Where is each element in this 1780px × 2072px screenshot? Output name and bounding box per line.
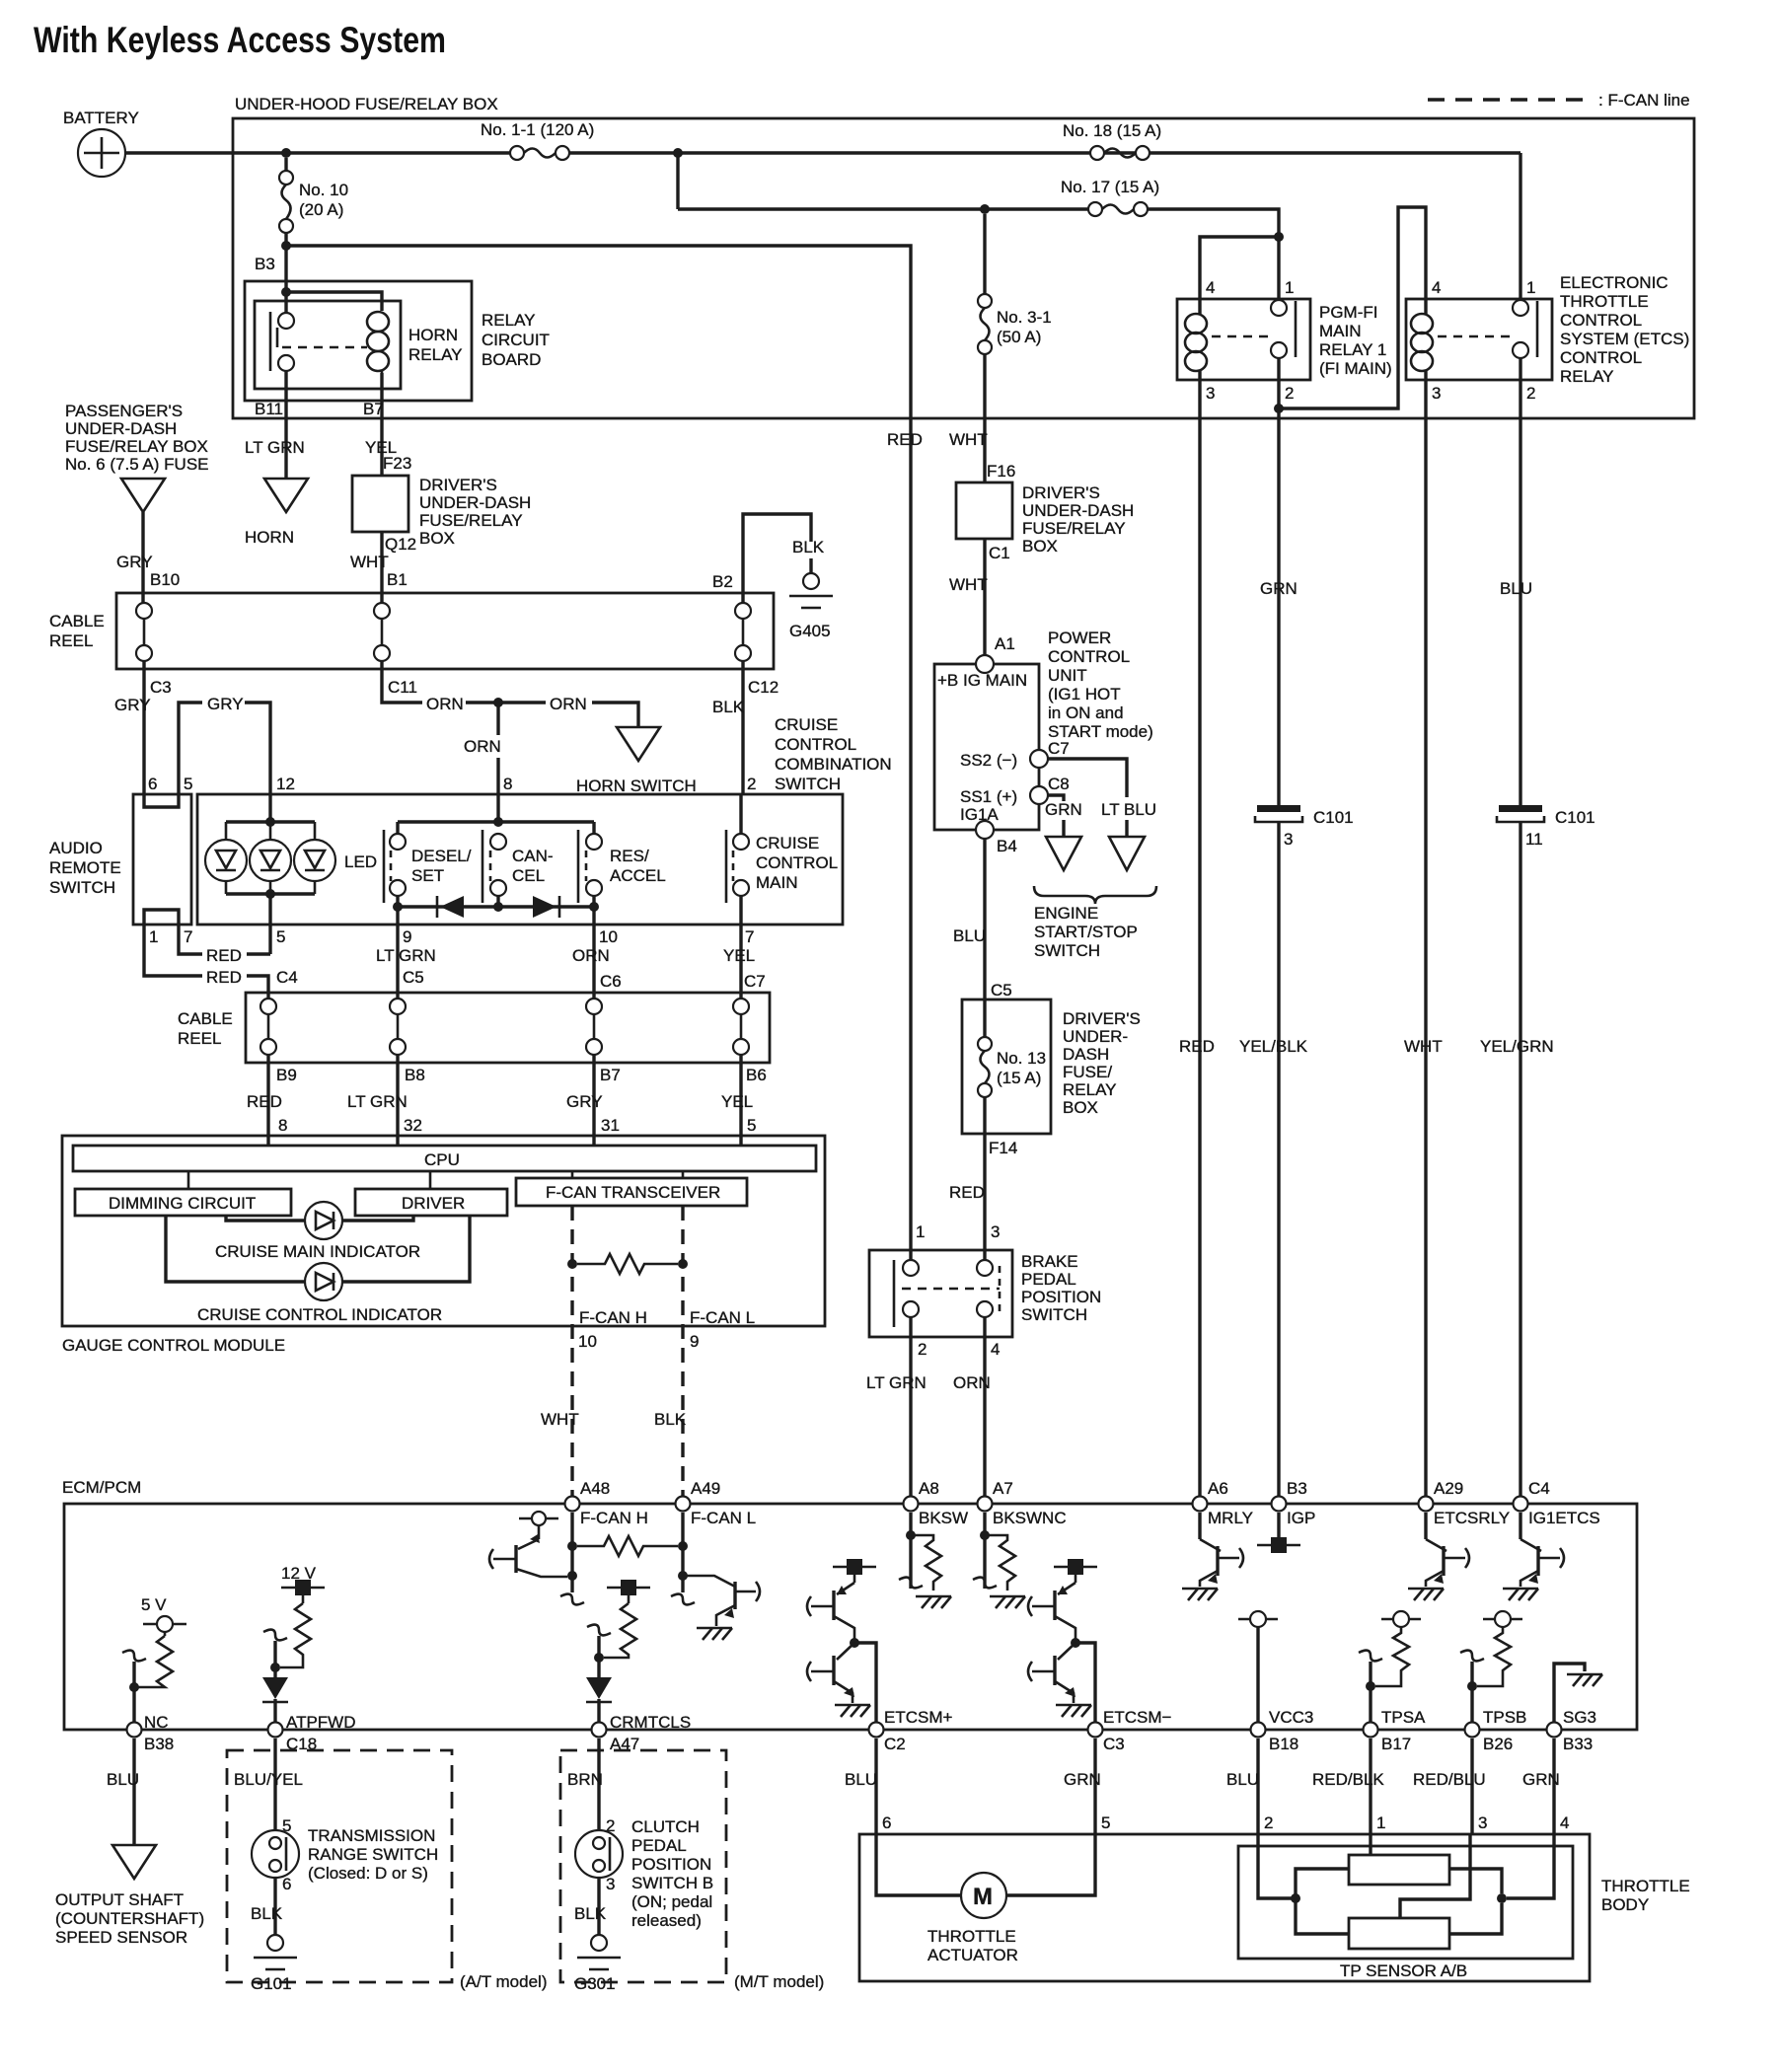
svg-text:ACTUATOR: ACTUATOR [927, 1946, 1018, 1964]
svg-text:BLU: BLU [953, 926, 986, 945]
ECM F-CAN terminating resistor [577, 1536, 678, 1556]
wire audio pin1 down [144, 925, 202, 976]
wire SG3 pin4 to TP box [1552, 1739, 1555, 1834]
wire TRS to ground G101 [273, 1878, 276, 1935]
svg-text:YEL: YEL [723, 946, 755, 965]
clutch pedal position switch [575, 1830, 623, 1878]
svg-text:RELAY: RELAY [1560, 367, 1614, 386]
cruise control indicator LED [305, 1263, 342, 1300]
throttle actuator motor [961, 1873, 1006, 1918]
connector C4 circle [1514, 1497, 1528, 1512]
wire CPU to F-CAN transceiver left [571, 1171, 574, 1178]
ground BKSWNC [990, 1596, 1025, 1608]
svg-text:ORN: ORN [572, 946, 610, 965]
ground Q-A49 [697, 1628, 732, 1640]
svg-text:CABLE: CABLE [178, 1009, 233, 1028]
wire C2 to throttle actuator [874, 1739, 877, 1834]
node horn relay feed junction [281, 287, 291, 297]
horn relay contact tick [276, 328, 279, 347]
wire C7 to LT BLU triangle [1048, 759, 1127, 797]
svg-text:LT GRN: LT GRN [347, 1092, 408, 1111]
svg-text:TP SENSOR A/B: TP SENSOR A/B [1340, 1961, 1467, 1980]
wire F16 to power control unit A1 [983, 539, 986, 656]
ground ETCSRLY [1408, 1589, 1444, 1600]
LED 2 [250, 822, 291, 894]
svg-text:OUTPUT SHAFT: OUTPUT SHAFT [55, 1890, 184, 1909]
svg-text:REEL: REEL [178, 1029, 221, 1048]
ECM/PCM box [64, 1504, 1637, 1730]
svg-text:BOX: BOX [1022, 537, 1058, 555]
svg-text:WHT: WHT [949, 575, 988, 594]
wire res junction to pin 10 [592, 907, 595, 998]
svg-text:3: 3 [991, 1222, 1000, 1241]
fuse No.1-1 (120 A) [510, 146, 569, 160]
svg-text:C101: C101 [1313, 808, 1354, 827]
wire horn relay pin B11 down [284, 371, 287, 479]
engine start/stop brace [1034, 886, 1156, 904]
svg-text:(IG1 HOT: (IG1 HOT [1048, 685, 1121, 703]
svg-text:BLK: BLK [251, 1904, 283, 1923]
svg-text:HORN: HORN [245, 528, 294, 547]
wire TP pin1 into sensor A [1369, 1834, 1372, 1855]
connector C5/B8 pins [390, 999, 406, 1055]
svg-text:C2: C2 [884, 1735, 906, 1753]
svg-text:F-CAN H: F-CAN H [579, 1308, 647, 1327]
svg-text:G101: G101 [251, 1974, 292, 1993]
svg-text:C11: C11 [388, 678, 417, 697]
svg-text:C12: C12 [748, 678, 779, 697]
svg-text:ETCSM+: ETCSM+ [884, 1708, 953, 1727]
svg-text:No. 1-1 (120 A): No. 1-1 (120 A) [481, 120, 594, 139]
connector LT BLU triangle [1109, 837, 1145, 870]
wire C11 to ORN row [382, 661, 422, 703]
svg-text:CRUISE: CRUISE [775, 715, 838, 734]
resistor TPSB [1477, 1627, 1511, 1686]
svg-text:THROTTLE: THROTTLE [1601, 1877, 1690, 1895]
svg-text:BOX: BOX [1063, 1098, 1098, 1117]
connector A1 circle [976, 655, 994, 673]
wire F14 to brake pedal switch pin 3 [983, 1134, 986, 1260]
svg-text:8: 8 [503, 775, 512, 793]
svg-text:BLU: BLU [1500, 579, 1532, 598]
svg-text:GRN: GRN [1045, 800, 1082, 819]
squiggle base upper ETCSM- [1028, 1596, 1032, 1616]
TP sensor A resistor rect [1349, 1855, 1449, 1885]
svg-text:F23: F23 [383, 454, 411, 473]
wire junction to horn relay coil [286, 292, 382, 311]
wire TP pin2 into sensor bus [1258, 1834, 1296, 1898]
wire TPSB pin3 to TP box [1470, 1739, 1473, 1834]
wire cruise pin12 to LED bus [268, 794, 271, 822]
fuse No.18 (15 A) [1090, 146, 1150, 160]
wire B3 internal [1277, 1513, 1280, 1537]
svg-text:BOARD: BOARD [482, 350, 541, 369]
connector A49 circle [676, 1497, 691, 1512]
svg-text:C5: C5 [991, 981, 1012, 999]
svg-text:(A/T model): (A/T model) [460, 1972, 548, 1991]
svg-text:B1: B1 [387, 570, 408, 589]
svg-text:RED: RED [247, 1092, 282, 1111]
connector A29 circle [1419, 1497, 1434, 1512]
svg-text:BLU/YEL: BLU/YEL [234, 1770, 303, 1789]
wire A6 internal [1198, 1513, 1201, 1539]
wire B7 down to gauge pin 31 [592, 1055, 595, 1146]
svg-text:B4: B4 [997, 837, 1017, 855]
connector C7/B6 pins [733, 999, 749, 1055]
gauge F-CAN terminating resistor [577, 1254, 678, 1274]
PGM-FI relay contact pin2 circle [1271, 342, 1287, 358]
svg-text:1: 1 [149, 927, 158, 946]
diode ATPFWD [262, 1677, 288, 1730]
node TP left junction [1291, 1893, 1300, 1903]
svg-text:B10: B10 [150, 570, 180, 589]
svg-text:DRIVER'S: DRIVER'S [1022, 483, 1100, 502]
transistor Q-ETCSM+ lower [811, 1643, 854, 1703]
svg-text:F-CAN TRANSCEIVER: F-CAN TRANSCEIVER [546, 1183, 720, 1202]
svg-text:6: 6 [148, 775, 157, 793]
svg-text:3: 3 [1432, 384, 1441, 403]
relay circuit board box [245, 281, 472, 401]
ground SG3 [1567, 1674, 1602, 1686]
svg-text:A29: A29 [1434, 1479, 1463, 1498]
svg-text:5 V: 5 V [141, 1595, 167, 1614]
wire GRY jumper right stub [245, 703, 270, 794]
svg-text:ENGINE: ENGINE [1034, 904, 1098, 923]
connector B1/C11 pin circles [374, 603, 390, 661]
gauge control module box [62, 1136, 825, 1326]
svg-text:in ON and: in ON and [1048, 703, 1124, 722]
svg-text:F-CAN H: F-CAN H [580, 1509, 648, 1527]
wire dimming to cruise control indicator [166, 1216, 306, 1282]
node WHT branch junction on second rail [980, 204, 990, 214]
svg-text:GRY: GRY [116, 553, 153, 571]
ground G405 symbol [789, 573, 833, 608]
svg-text:AUDIO: AUDIO [49, 839, 103, 857]
svg-text:SG3: SG3 [1563, 1708, 1596, 1727]
svg-text:BLK: BLK [574, 1904, 607, 1923]
connector horn switch triangle [617, 727, 660, 761]
fuse No.17 (15 A) [1088, 202, 1148, 216]
connector HORN triangle [264, 479, 308, 512]
svg-text:5: 5 [276, 927, 285, 946]
node top bus junction [493, 817, 503, 827]
svg-text:YEL/GRN: YEL/GRN [1480, 1037, 1554, 1056]
squiggle base Q-A48 [489, 1549, 493, 1569]
cable reel box 1 [116, 593, 774, 669]
svg-text:M: M [973, 1884, 993, 1910]
svg-text:5: 5 [747, 1116, 756, 1135]
svg-text:BLU: BLU [107, 1770, 139, 1789]
svg-text:RELAY 1: RELAY 1 [1319, 340, 1386, 359]
F-CAN transceiver box [516, 1178, 747, 1206]
wire passenger triangle to cable reel B10 [141, 512, 144, 603]
svg-text:GRN: GRN [1522, 1770, 1560, 1789]
svg-text:C5: C5 [403, 968, 424, 987]
wire B9 down to gauge pin 8 [266, 1055, 269, 1146]
svg-text:No. 3-1: No. 3-1 [997, 308, 1052, 327]
squiggle base lower ETCSM+ [807, 1662, 811, 1681]
connector output shaft triangle [112, 1845, 156, 1879]
wire TP pin4 to right junction [1507, 1834, 1554, 1898]
svg-text:1: 1 [1526, 278, 1535, 297]
svg-text:GRN: GRN [1064, 1770, 1101, 1789]
svg-text:GRN: GRN [1260, 579, 1298, 598]
horn relay contact pin circles [278, 313, 294, 329]
diode D2 pointing right [533, 896, 559, 918]
wire diode bus junction to pin 9 [396, 907, 399, 998]
svg-text:MAIN: MAIN [756, 873, 798, 892]
svg-text:COMBINATION: COMBINATION [775, 755, 892, 774]
svg-text:(20 A): (20 A) [299, 200, 343, 219]
svg-text:RED: RED [887, 430, 923, 449]
svg-text:GRY: GRY [114, 696, 151, 714]
wire inside No.13 box bottom [983, 1097, 986, 1134]
LED 3 [294, 822, 335, 894]
svg-text:C7: C7 [1048, 739, 1070, 758]
svg-text:7: 7 [745, 927, 754, 946]
svg-text:CEL: CEL [512, 866, 545, 885]
node A48 lower junction [567, 1571, 577, 1581]
svg-text:B2: B2 [712, 572, 733, 591]
svg-text:DRIVER: DRIVER [402, 1194, 465, 1213]
resistor BKSW to ground [911, 1535, 941, 1591]
transistor Q-ETCSM- lower [1032, 1643, 1075, 1703]
connector B38 circle [127, 1723, 142, 1738]
node NC junction [129, 1682, 139, 1692]
ground ETCSM+ [835, 1705, 870, 1717]
svg-text:C4: C4 [276, 968, 298, 987]
node ORN junction [493, 698, 503, 707]
under-hood fuse/relay box [233, 118, 1694, 418]
svg-text:No. 18 (15 A): No. 18 (15 A) [1063, 121, 1161, 140]
svg-text:IG1ETCS: IG1ETCS [1528, 1509, 1600, 1527]
wire ETCSM+ output to C2 [854, 1643, 876, 1730]
svg-text:RES/: RES/ [610, 847, 649, 865]
throttle body box [859, 1834, 1590, 1981]
wire BLK stub to ground [809, 558, 812, 573]
wire branch down to second rail [676, 153, 679, 209]
svg-text:POSITION: POSITION [631, 1855, 711, 1874]
M/T model dashed box [560, 1750, 726, 1982]
wire dimming to cruise main indicator [226, 1216, 306, 1221]
svg-text:10: 10 [599, 927, 618, 946]
svg-text:UNIT: UNIT [1048, 666, 1087, 685]
cable reel box 3 [246, 993, 770, 1063]
svg-text:RED: RED [206, 946, 242, 965]
svg-text:CABLE: CABLE [49, 612, 105, 630]
ETCS relay contact bar [1536, 301, 1539, 357]
svg-text:1: 1 [1285, 278, 1294, 297]
TP sensor inner box [1238, 1846, 1573, 1959]
wire PGM pin3 RED column to ECM A6 [1198, 418, 1201, 1498]
transistor Q-MRLY [1200, 1539, 1239, 1587]
svg-text:(M/T model): (M/T model) [734, 1972, 824, 1991]
connector C3 circle [1088, 1723, 1103, 1738]
svg-text:SWITCH B: SWITCH B [631, 1874, 713, 1892]
wire F23 to cable reel B1 [380, 532, 383, 603]
svg-text:THROTTLE: THROTTLE [1560, 292, 1649, 311]
wire left junction to sensor A [1296, 1869, 1349, 1898]
wire cruise control indicator to driver [342, 1216, 470, 1282]
node A48 resistor junction [567, 1541, 577, 1551]
svg-text:IG1A: IG1A [960, 805, 999, 824]
F16 driver's under-dash fuse box [956, 482, 1012, 539]
svg-text:RANGE SWITCH: RANGE SWITCH [308, 1845, 438, 1864]
switch top bus [398, 820, 594, 823]
switch RES/ACCEL [578, 830, 602, 903]
svg-text:B18: B18 [1269, 1735, 1298, 1753]
svg-text:B7: B7 [600, 1066, 621, 1084]
wire A49 internal [681, 1513, 684, 1592]
svg-text:FUSE/RELAY: FUSE/RELAY [1022, 519, 1126, 538]
svg-text:DRIVER'S: DRIVER'S [419, 476, 497, 494]
svg-text:8: 8 [278, 1116, 287, 1135]
node F-CAN H gauge resistor junction [567, 1259, 577, 1269]
svg-text:BRN: BRN [567, 1770, 603, 1789]
terminal VCC3 circle [1238, 1611, 1278, 1627]
wire motor right lead [1005, 1834, 1095, 1895]
wire VCC3 pin2 to TP box [1256, 1739, 1259, 1834]
horn relay dashed link [282, 346, 367, 349]
svg-text:2: 2 [1285, 384, 1294, 403]
ground IG1ETCS [1503, 1589, 1538, 1600]
svg-text:GAUGE CONTROL MODULE: GAUGE CONTROL MODULE [62, 1336, 285, 1355]
wire B8 down to gauge pin 32 [396, 1055, 399, 1146]
wire branch to PGM coil pin 4 [1200, 237, 1279, 314]
svg-text:BLU: BLU [845, 1770, 877, 1789]
svg-text:RED/BLU: RED/BLU [1413, 1770, 1486, 1789]
svg-text:4: 4 [1206, 278, 1215, 297]
LED cathode bus [226, 892, 315, 895]
svg-text:YEL: YEL [721, 1092, 753, 1111]
wire brake pin4 to ECM A7 [983, 1317, 986, 1498]
svg-text:LED: LED [344, 852, 377, 871]
squiggle collector Q-MRLY [1239, 1548, 1243, 1568]
ground G101 symbol [254, 1935, 297, 1969]
svg-text:NC: NC [144, 1713, 169, 1732]
wire A47 to clutch switch [597, 1739, 600, 1830]
F23 driver's under-dash fuse box [352, 476, 408, 532]
wire CPU to driver [429, 1171, 432, 1189]
svg-text:CLUTCH: CLUTCH [631, 1817, 700, 1836]
svg-text:IGP: IGP [1287, 1509, 1315, 1527]
svg-text:3: 3 [1478, 1813, 1487, 1832]
svg-text:CONTROL: CONTROL [1048, 647, 1130, 666]
transistor Q-A48 [493, 1525, 567, 1577]
wire TP pin3 wiper step [1400, 1834, 1470, 1918]
svg-text:No. 10: No. 10 [299, 181, 348, 199]
svg-text:B38: B38 [144, 1735, 174, 1753]
svg-text:3: 3 [606, 1875, 615, 1893]
brake switch pin4 circle [977, 1301, 993, 1317]
svg-text:(FI MAIN): (FI MAIN) [1319, 359, 1392, 378]
svg-text:RED: RED [206, 968, 242, 987]
svg-text:6: 6 [882, 1813, 891, 1832]
wire A7 internal [983, 1513, 986, 1589]
wire C101 to ECM C4 [1519, 822, 1521, 1498]
squiggle break A49 line [671, 1594, 695, 1605]
wire second rail to PGM-FI relay pin 1 [678, 207, 1090, 210]
svg-text:No. 13: No. 13 [997, 1049, 1046, 1068]
svg-text:WHT: WHT [949, 430, 988, 449]
wire ETCS pin3 WHT column to ECM A29 [1424, 418, 1427, 1498]
svg-text:C3: C3 [150, 678, 172, 697]
wire audio internal pin6-pin5 link [144, 794, 179, 807]
svg-text:2: 2 [1526, 384, 1535, 403]
svg-text:BLK: BLK [654, 1410, 687, 1429]
svg-text:Q12: Q12 [385, 535, 416, 554]
wire CPU to dimming circuit [187, 1171, 190, 1189]
wire B6 down to gauge pin 5 [739, 1055, 742, 1146]
svg-text:RED: RED [1179, 1037, 1215, 1056]
svg-text:LT BLU: LT BLU [1101, 800, 1156, 819]
svg-text:F16: F16 [987, 462, 1015, 481]
svg-text:A8: A8 [919, 1479, 939, 1498]
svg-text:A7: A7 [993, 1479, 1013, 1498]
svg-text:4: 4 [1432, 278, 1441, 297]
svg-text:RED: RED [949, 1183, 985, 1202]
node PGM coil branch junction [1274, 232, 1284, 242]
svg-text:5: 5 [1101, 1813, 1110, 1832]
svg-text:MAIN: MAIN [1319, 322, 1362, 340]
brake switch pin3 circle [977, 1260, 993, 1276]
PGM-FI relay contact pin1 circle [1271, 300, 1287, 316]
connector B4 circle [976, 821, 994, 839]
node LED bus junction [265, 817, 275, 827]
transmission range switch [252, 1830, 299, 1878]
terminal TPSA circle [1381, 1611, 1421, 1627]
resistor ATPFWD pull-up [280, 1603, 311, 1667]
svg-text:CRUISE: CRUISE [756, 834, 819, 852]
wire fuse No.1-1 to ETCS relay pin 1 [569, 151, 1520, 154]
wire TPSB internal [1470, 1662, 1473, 1730]
F-CAN line legend dashed sample [1428, 98, 1589, 101]
wire top bus right drop [592, 822, 595, 834]
wire brake pin2 to ECM A8 [909, 1317, 912, 1498]
node TPSB junction [1467, 1681, 1477, 1691]
TP sensor B resistor rect [1349, 1918, 1449, 1949]
svg-text:TRANSMISSION: TRANSMISSION [308, 1826, 435, 1845]
svg-text:ETCSM−: ETCSM− [1103, 1708, 1172, 1727]
connector GRN triangle [1046, 837, 1081, 870]
node A49 lower junction [678, 1571, 688, 1581]
svg-text:UNDER-HOOD FUSE/RELAY BOX: UNDER-HOOD FUSE/RELAY BOX [235, 95, 498, 113]
horn relay contact bar [269, 312, 272, 371]
svg-text:FUSE/RELAY BOX: FUSE/RELAY BOX [65, 437, 208, 456]
terminal TPSB circle [1483, 1611, 1522, 1627]
node diode bus left junction [393, 902, 403, 912]
node ETCSM+ output junction [850, 1638, 859, 1648]
wire top bus left drop [396, 822, 399, 834]
connector C8 circle [1030, 786, 1048, 804]
svg-text:3: 3 [1284, 830, 1293, 849]
transistor Q-IG1ETCS [1520, 1539, 1560, 1587]
svg-text:SWITCH: SWITCH [775, 775, 841, 793]
ETCS control relay box [1406, 299, 1552, 380]
PGM-FI relay dashed link [1212, 335, 1271, 338]
svg-text:ACCEL: ACCEL [610, 866, 666, 885]
battery B1 symbol [78, 129, 125, 177]
wire B2 ground branch [743, 514, 811, 603]
wire A8 internal [909, 1513, 912, 1589]
resistor CRMTCLS pull-up [604, 1603, 636, 1658]
wire cruise main indicator to driver [342, 1216, 413, 1221]
wire sensor A right to right junction [1449, 1869, 1502, 1893]
svg-text:2: 2 [1264, 1813, 1273, 1832]
diode D1 pointing left [437, 896, 464, 918]
svg-text:: F-CAN line: : F-CAN line [1598, 91, 1690, 110]
connector A48 circle [565, 1497, 580, 1512]
